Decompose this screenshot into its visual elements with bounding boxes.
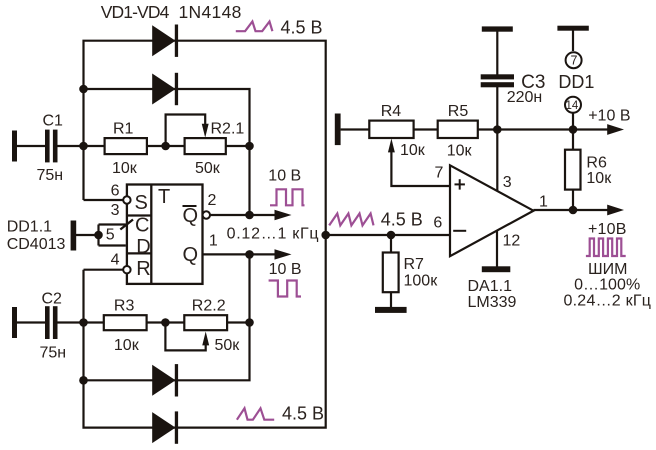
svg-text:14: 14 xyxy=(566,100,579,112)
svg-text:10к: 10к xyxy=(112,160,138,177)
svg-text:50к: 50к xyxy=(215,337,241,354)
svg-text:R5: R5 xyxy=(448,103,469,120)
svg-text:0…100%: 0…100% xyxy=(574,277,640,294)
svg-text:R6: R6 xyxy=(586,155,607,172)
svg-text:220н: 220н xyxy=(507,89,543,106)
svg-text:12: 12 xyxy=(503,233,521,250)
svg-text:5: 5 xyxy=(106,227,115,244)
svg-text:2: 2 xyxy=(208,192,217,209)
svg-text:4: 4 xyxy=(111,251,120,268)
svg-text:T: T xyxy=(158,186,170,208)
svg-text:3: 3 xyxy=(503,174,512,191)
svg-text:4.5 В: 4.5 В xyxy=(281,17,323,37)
svg-text:10к: 10к xyxy=(447,143,473,160)
svg-text:10к: 10к xyxy=(114,337,140,354)
svg-text:C2: C2 xyxy=(42,290,63,307)
svg-text:R: R xyxy=(136,258,150,280)
svg-text:75н: 75н xyxy=(40,345,67,362)
svg-text:R4: R4 xyxy=(381,103,402,120)
svg-text:C1: C1 xyxy=(43,113,64,130)
svg-text:DD1.1: DD1.1 xyxy=(7,219,52,236)
svg-text:6: 6 xyxy=(433,215,442,232)
svg-text:7: 7 xyxy=(571,54,578,68)
svg-text:6: 6 xyxy=(111,182,120,199)
svg-text:7: 7 xyxy=(435,165,444,182)
svg-text:LM339: LM339 xyxy=(468,294,517,311)
svg-text:R2.2: R2.2 xyxy=(192,298,226,315)
svg-text:Q: Q xyxy=(183,205,199,227)
svg-text:1: 1 xyxy=(209,233,218,250)
svg-text:10к: 10к xyxy=(400,142,426,159)
svg-text:R1: R1 xyxy=(113,121,134,138)
svg-text:CD4013: CD4013 xyxy=(7,236,66,253)
svg-text:75н: 75н xyxy=(37,167,64,184)
svg-text:R7: R7 xyxy=(404,256,425,273)
svg-text:+10В: +10В xyxy=(588,221,626,238)
svg-text:0.12…1 кГц: 0.12…1 кГц xyxy=(227,226,319,243)
svg-text:Q: Q xyxy=(183,244,199,266)
svg-text:C: C xyxy=(135,215,149,237)
svg-text:+10 В: +10 В xyxy=(588,108,630,125)
svg-text:4.5 В: 4.5 В xyxy=(381,209,423,229)
svg-text:1: 1 xyxy=(539,194,548,211)
svg-text:10к: 10к xyxy=(586,170,612,187)
svg-text:10 В: 10 В xyxy=(268,168,301,185)
svg-text:1N4148: 1N4148 xyxy=(179,2,242,22)
svg-text:0.24…2 кГц: 0.24…2 кГц xyxy=(564,293,651,310)
svg-text:D: D xyxy=(136,236,150,258)
svg-text:10 В: 10 В xyxy=(269,261,302,278)
svg-text:3: 3 xyxy=(111,202,120,219)
svg-text:VD1-VD4: VD1-VD4 xyxy=(101,2,170,22)
svg-text:S: S xyxy=(135,192,148,214)
svg-text:DD1: DD1 xyxy=(558,72,594,92)
svg-text:100к: 100к xyxy=(404,273,439,290)
svg-text:50к: 50к xyxy=(195,160,221,177)
svg-text:4.5 В: 4.5 В xyxy=(282,404,324,424)
svg-text:R2.1: R2.1 xyxy=(211,121,245,138)
svg-text:ШИМ: ШИМ xyxy=(588,261,627,278)
svg-text:DA1.1: DA1.1 xyxy=(468,278,513,295)
svg-text:R3: R3 xyxy=(114,298,135,315)
